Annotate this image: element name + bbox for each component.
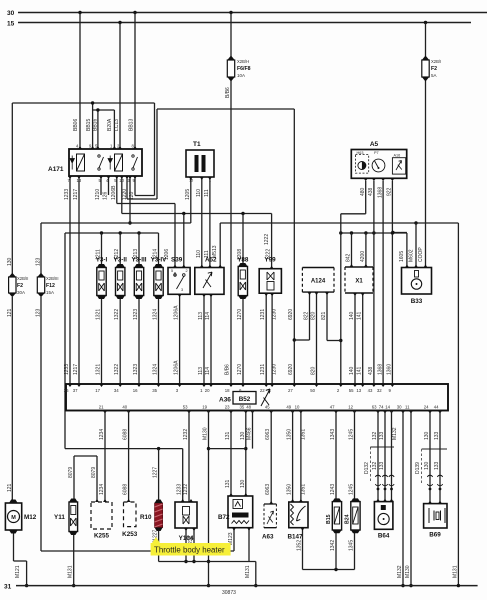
- svg-text:1270: 1270: [237, 364, 243, 375]
- svg-text:141: 141: [357, 366, 363, 375]
- svg-text:D139: D139: [415, 462, 421, 474]
- svg-text:Throttle body heater: Throttle body heater: [154, 546, 225, 555]
- wire 131 A36 to B72: [230, 411, 232, 497]
- wire 123 bottom line: [41, 550, 234, 552]
- svg-text:1210: 1210: [95, 189, 101, 200]
- svg-text:COOP: COOP: [418, 247, 424, 262]
- svg-text:1368: 1368: [377, 364, 383, 375]
- svg-text:110: 110: [196, 250, 202, 258]
- svg-text:BB06: BB06: [73, 119, 79, 131]
- wire S39 right pin: [183, 214, 185, 268]
- wire 123 to fuse F12: [40, 223, 42, 275]
- svg-text:B69: B69: [429, 532, 441, 539]
- wire 6063 A36 to A63: [270, 411, 272, 505]
- svg-text:37: 37: [73, 388, 78, 393]
- svg-text:F2: F2: [431, 66, 437, 72]
- wire 1213 to Y3-III: [138, 233, 140, 268]
- svg-text:1270: 1270: [237, 309, 243, 320]
- svg-text:1352: 1352: [297, 540, 303, 551]
- wire M130 A36 to ground rail: [208, 411, 210, 586]
- svg-text:6920: 6920: [288, 309, 294, 320]
- svg-text:20: 20: [205, 388, 210, 393]
- svg-text:74: 74: [379, 405, 384, 410]
- relay 1 switch: [98, 155, 100, 157]
- injector Y3-IV: [154, 264, 163, 299]
- svg-text:19: 19: [202, 405, 207, 410]
- svg-text:1351: 1351: [300, 429, 306, 440]
- svg-text:6920: 6920: [288, 364, 294, 375]
- svg-text:114: 114: [205, 312, 211, 320]
- svg-text:M131: M131: [245, 565, 251, 578]
- wire 8079 to K255: [96, 456, 98, 502]
- ignition coil T1: [186, 150, 214, 177]
- sensor B69 knock: [424, 504, 447, 528]
- wire LC13 rail15 to A171 pin2: [119, 23, 121, 150]
- valve Y11: [69, 499, 78, 536]
- wire 130 A36 to B72: [245, 411, 247, 497]
- wire heater feed line: [65, 448, 183, 450]
- wire 141 X1 to A36 pin13: [362, 293, 364, 384]
- wire supply down to R10 line: [64, 233, 66, 449]
- wire 1232 A36 to Y104: [188, 411, 190, 503]
- injector Y3-II: [116, 264, 125, 299]
- wire 130 to fuse F2 left: [11, 103, 13, 275]
- svg-text:M130: M130: [203, 427, 209, 440]
- ECU A36: [66, 384, 448, 411]
- svg-text:49: 49: [286, 405, 291, 410]
- injector Y3-I: [97, 264, 106, 299]
- wire M8079 Y11 to rail: [73, 535, 75, 586]
- wire 1245 A36 to B24: [354, 411, 356, 502]
- svg-text:M131: M131: [452, 565, 458, 578]
- svg-text:B24: B24: [345, 514, 351, 524]
- relay 2 coil: [115, 154, 123, 171]
- svg-text:30: 30: [7, 10, 15, 17]
- svg-text:Y88: Y88: [237, 257, 249, 264]
- wire 821 A124: [326, 292, 328, 340]
- relay 2 switch: [132, 155, 134, 157]
- svg-text:1231: 1231: [260, 309, 266, 320]
- wire 1323 Y3-III to A36 pin16: [138, 299, 140, 384]
- fuse F2 5A: [422, 56, 429, 82]
- svg-text:Y3-IV: Y3-IV: [151, 257, 168, 264]
- svg-text:1206A: 1206A: [174, 305, 180, 320]
- svg-text:17: 17: [95, 388, 100, 393]
- svg-text:X2B/II: X2B/II: [17, 276, 28, 281]
- svg-text:A: A: [268, 388, 271, 393]
- wire 1206B A171 to S39: [116, 176, 118, 204]
- svg-text:B33: B33: [411, 298, 423, 305]
- sensor B24: [351, 498, 360, 533]
- svg-text:B15: B15: [326, 514, 332, 524]
- svg-text:6063: 6063: [265, 484, 271, 495]
- svg-text:F6/F8: F6/F8: [237, 66, 251, 72]
- wire 1205 T1 pin to F12 feed line: [190, 177, 192, 223]
- svg-text:M131: M131: [68, 565, 74, 578]
- svg-text:141: 141: [357, 311, 363, 320]
- svg-text:1351: 1351: [300, 484, 306, 495]
- wire B72 right down: [248, 528, 250, 562]
- svg-text:6088: 6088: [123, 429, 129, 440]
- relay box A171: [69, 149, 142, 176]
- svg-text:1360: 1360: [387, 364, 393, 375]
- svg-text:D132: D132: [364, 462, 370, 474]
- svg-text:15: 15: [7, 21, 15, 28]
- svg-text:1230: 1230: [272, 364, 278, 375]
- wire 1214 to Y3-IV: [158, 233, 160, 268]
- svg-text:114: 114: [205, 367, 211, 375]
- svg-text:113: 113: [198, 367, 204, 375]
- svg-text:30: 30: [397, 405, 402, 410]
- svg-text:12: 12: [348, 405, 353, 410]
- wire M1232 Y104 down: [193, 528, 195, 562]
- svg-text:1343: 1343: [330, 429, 336, 440]
- wire to A52 right pin: [219, 223, 221, 268]
- wire 8079 bridge: [74, 455, 97, 457]
- junction rail30/BB06: [78, 11, 81, 14]
- svg-text:6088: 6088: [123, 484, 129, 495]
- wire 480 jog: [341, 213, 366, 215]
- svg-text:133: 133: [379, 431, 385, 440]
- svg-text:BB15: BB15: [86, 119, 92, 131]
- svg-text:M: M: [11, 515, 16, 521]
- svg-text:X2B/H: X2B/H: [237, 59, 249, 64]
- svg-text:43: 43: [368, 388, 373, 393]
- svg-text:A124: A124: [311, 279, 326, 285]
- svg-text:1206B: 1206B: [111, 185, 117, 200]
- svg-text:1233: 1233: [64, 189, 70, 200]
- svg-text:1324: 1324: [153, 364, 159, 375]
- svg-text:B20A: B20A: [107, 118, 113, 131]
- svg-text:30A: 30A: [17, 290, 25, 295]
- wire M121 to rail: [26, 561, 28, 586]
- svg-text:B52: B52: [239, 396, 251, 403]
- svg-text:K255: K255: [94, 533, 110, 540]
- svg-text:14: 14: [385, 405, 390, 410]
- svg-text:1322: 1322: [114, 364, 120, 375]
- svg-text:133: 133: [434, 461, 440, 470]
- ECU sub B52: [233, 392, 256, 405]
- wire 1226 A171 to F12 line: [129, 176, 131, 223]
- svg-text:27: 27: [288, 388, 293, 393]
- svg-text:133: 133: [434, 431, 440, 440]
- svg-text:50: 50: [310, 388, 315, 393]
- svg-text:40: 40: [122, 405, 127, 410]
- svg-text:55: 55: [349, 388, 354, 393]
- wire 922 A5 to A36 pin9: [391, 181, 393, 384]
- svg-text:140: 140: [349, 366, 355, 375]
- svg-text:1231: 1231: [260, 364, 266, 375]
- svg-text:4200: 4200: [360, 251, 366, 262]
- wire 1345 B24 down: [354, 530, 356, 570]
- svg-text:48: 48: [246, 405, 251, 410]
- switch S39: [168, 268, 190, 295]
- wire 6088 A36 to K253: [128, 411, 130, 503]
- junction rail15/fuse F2: [424, 21, 427, 24]
- wire 1233 A171 to A36 pin36: [69, 176, 71, 384]
- relay K255: [91, 502, 112, 529]
- wire loop to x157: [127, 198, 157, 200]
- svg-text:30873: 30873: [222, 590, 236, 596]
- svg-text:B/B6: B/B6: [225, 87, 231, 98]
- screened cable B69: [422, 449, 447, 483]
- svg-text:1323: 1323: [133, 364, 139, 375]
- svg-text:130: 130: [240, 479, 246, 488]
- injector Y3-III: [134, 264, 143, 299]
- junction rail15/BB16: [118, 21, 121, 24]
- svg-text:1350: 1350: [287, 484, 293, 495]
- wire 1210 stub: [100, 176, 102, 195]
- svg-text:1234: 1234: [99, 484, 105, 495]
- ECU bottom pin numbers: [103, 411, 107, 414]
- svg-text:130: 130: [424, 431, 430, 440]
- svg-text:1234: 1234: [99, 429, 105, 440]
- wire 1324 Y3-IV to A36 pin35: [158, 299, 160, 384]
- wire 1220 A171 to Y88/Y99: [121, 176, 123, 214]
- svg-text:M130: M130: [405, 565, 411, 578]
- svg-text:130: 130: [240, 431, 246, 440]
- svg-text:22: 22: [260, 388, 265, 393]
- svg-text:Y3-I: Y3-I: [96, 257, 108, 264]
- wire 1220 Y88 to A36 pin6: [242, 299, 244, 384]
- svg-text:X2B/I: X2B/I: [431, 59, 441, 64]
- svg-text:1222: 1222: [264, 234, 270, 245]
- svg-text:47: 47: [330, 405, 335, 410]
- wire M123 B72 down: [233, 528, 235, 551]
- valve Y104: [175, 502, 197, 528]
- svg-text:63: 63: [372, 405, 377, 410]
- svg-text:1217: 1217: [73, 364, 79, 375]
- wire 438 A5 to A36 pin43: [373, 181, 375, 384]
- svg-text:R10: R10: [140, 514, 152, 521]
- svg-text:820: 820: [311, 366, 317, 375]
- sensor B64 hall: [374, 502, 393, 530]
- wire engine speed signal line: [341, 232, 407, 234]
- wire M602 to B33: [415, 223, 417, 268]
- svg-text:BB13: BB13: [129, 119, 135, 131]
- svg-text:8079: 8079: [68, 467, 74, 478]
- svg-text:1232: 1232: [183, 484, 189, 495]
- svg-text:3: 3: [181, 288, 183, 292]
- relay K253: [124, 502, 137, 527]
- wire BB15: [92, 103, 94, 149]
- svg-text:A36: A36: [219, 397, 231, 404]
- svg-text:A171: A171: [48, 166, 64, 173]
- svg-text:53: 53: [183, 405, 188, 410]
- wire 1605 jog: [393, 232, 407, 234]
- svg-text:822: 822: [304, 311, 310, 320]
- wire M131 to rail: [255, 562, 257, 586]
- svg-text:1230: 1230: [272, 309, 278, 320]
- svg-text:45: 45: [265, 405, 270, 410]
- svg-text:B147: B147: [287, 534, 303, 541]
- wire D139 A36 to B69: [439, 411, 441, 504]
- wire 130 horizontal: [12, 102, 154, 104]
- valve Y88: [238, 263, 247, 299]
- junction rail30/BB13: [133, 11, 136, 14]
- svg-text:34: 34: [114, 388, 119, 393]
- wire 111 T1 to A52: [209, 177, 211, 268]
- wire BB13 rail30 to A171 pin8: [134, 13, 136, 150]
- svg-text:35: 35: [152, 388, 157, 393]
- potentiometer B147: [289, 502, 308, 528]
- wire rail 15: [18, 22, 471, 24]
- wire 1368 A5 to A36 pin32: [382, 181, 384, 384]
- svg-text:Y3-II: Y3-II: [114, 257, 128, 264]
- svg-text:820: 820: [311, 311, 317, 320]
- wire 8079 to Y11: [73, 456, 75, 502]
- svg-text:36: 36: [64, 388, 69, 393]
- wire 1350 A36 to B147: [292, 411, 294, 503]
- wire 822 A124: [309, 292, 311, 340]
- wire B20A to A171 pin1: [113, 110, 115, 149]
- svg-text:11: 11: [405, 405, 410, 410]
- wire 1206B feed line to S39: [117, 203, 175, 205]
- svg-text:131: 131: [225, 431, 231, 440]
- wire 1342 B15 down: [335, 530, 337, 570]
- relay 1 diode: [70, 156, 74, 170]
- svg-text:B64: B64: [378, 533, 390, 540]
- wire 1217 A171 to A36 pin37: [78, 176, 80, 384]
- wire 1231 Y99 to A36 pin22: [265, 293, 267, 384]
- wire 114 A52 to A36 pin20: [210, 294, 212, 384]
- wire 1605 to B33: [406, 233, 408, 268]
- svg-text:1245: 1245: [349, 429, 355, 440]
- wire 1343 A36 to B15: [335, 411, 337, 502]
- fuse F2 30A left: [9, 273, 16, 298]
- relay 1 coil: [77, 154, 85, 171]
- svg-text:S39: S39: [171, 257, 183, 264]
- wire 1227 to R10: [158, 449, 160, 501]
- module A52: [195, 268, 224, 295]
- svg-text:B/B6: B/B6: [225, 364, 231, 375]
- wire 1212 to Y3-II: [119, 233, 121, 268]
- wire BB16 stub pin5: [97, 110, 99, 149]
- wire loop right of A171: [154, 103, 156, 196]
- wire B/B6 fuse F6 feed: [230, 13, 232, 385]
- svg-text:M132: M132: [397, 565, 403, 578]
- svg-text:M466: M466: [247, 427, 253, 440]
- wire 110 T1 to A52: [201, 177, 203, 268]
- wire sensor ground line: [303, 569, 355, 571]
- wire M466 stub: [252, 411, 254, 449]
- svg-text:A63: A63: [262, 534, 274, 541]
- svg-text:21: 21: [99, 405, 104, 410]
- wire M130 A36 to ground: [410, 411, 412, 586]
- svg-text:123: 123: [36, 257, 42, 266]
- wire 140 X1 to A36 pin55: [354, 293, 356, 384]
- svg-text:1321: 1321: [96, 309, 102, 320]
- svg-text:M12: M12: [24, 514, 37, 521]
- resistor R10 throttle body heater: [155, 500, 163, 532]
- svg-text:821: 821: [321, 311, 327, 320]
- wire A171 pin9 down: [134, 176, 136, 196]
- wire 130 A36 to B69: [429, 411, 431, 504]
- svg-text:5A: 5A: [431, 73, 437, 78]
- svg-text:Y11: Y11: [54, 514, 65, 521]
- svg-text:110: 110: [196, 189, 202, 197]
- wire 1321 Y3-I to A36 pin17: [101, 299, 103, 384]
- wire 1220 feed line Y88 Y99: [122, 213, 272, 215]
- svg-text:A52: A52: [205, 257, 217, 264]
- svg-text:M121: M121: [15, 565, 21, 578]
- wire BB06 rail30 to A171 pin4: [79, 13, 81, 150]
- wire 1206 distribution line right: [220, 222, 458, 224]
- svg-text:10: 10: [295, 405, 300, 410]
- wire M132 A36 to ground: [402, 411, 404, 586]
- svg-text:113: 113: [198, 312, 204, 320]
- svg-text:8079: 8079: [91, 467, 97, 478]
- svg-text:130: 130: [424, 461, 430, 470]
- wire 123 fuse F12 down: [40, 297, 42, 551]
- connector A63: [264, 504, 276, 528]
- highlight throttle body heater: [151, 537, 231, 556]
- svg-text:LC13: LC13: [114, 119, 120, 131]
- svg-text:1605: 1605: [399, 251, 405, 262]
- svg-text:A5: A5: [370, 141, 379, 148]
- wire 1208 to Y88: [242, 214, 244, 267]
- svg-text:111: 111: [204, 189, 210, 197]
- wire 820 A124 to A36 pin50: [316, 292, 318, 384]
- wire fuse F2 feed to B33: [425, 23, 427, 268]
- svg-text:1232: 1232: [183, 429, 189, 440]
- svg-text:1245: 1245: [349, 484, 355, 495]
- wire M1227 bottom line: [159, 561, 256, 563]
- svg-text:1205: 1205: [185, 189, 191, 200]
- svg-text:F2: F2: [17, 283, 23, 289]
- wire 480/4200 to A36 pin2: [340, 214, 342, 384]
- svg-text:1322: 1322: [114, 309, 120, 320]
- svg-text:126: 126: [103, 191, 109, 200]
- svg-text:132: 132: [372, 431, 378, 440]
- svg-text:1206A: 1206A: [174, 360, 180, 375]
- svg-text:M602: M602: [409, 249, 415, 262]
- screened cable B64: [370, 447, 394, 483]
- warning lamp H63: [355, 155, 368, 174]
- wire M130 link: [209, 448, 246, 450]
- wire S39 left pin riser: [174, 204, 176, 268]
- svg-text:T1: T1: [193, 141, 201, 148]
- svg-text:23: 23: [225, 405, 230, 410]
- module A124: [302, 268, 334, 293]
- svg-text:1323: 1323: [133, 309, 139, 320]
- wire 1230 Y99 to A36 pinA: [271, 293, 273, 384]
- fuse F12 15A: [37, 273, 44, 298]
- svg-text:24: 24: [424, 405, 429, 410]
- valve Y99: [259, 269, 281, 294]
- svg-text:X2B/III: X2B/III: [46, 276, 59, 281]
- wire 1351 A36 to B147: [300, 411, 302, 503]
- fuse F6/F8 10A: [227, 56, 234, 82]
- wire right side to ground rail: [457, 223, 459, 586]
- svg-text:18: 18: [225, 388, 230, 393]
- wire 1206A S39 to A36 pin3: [179, 294, 181, 384]
- connector X1: [345, 267, 373, 293]
- svg-text:F12: F12: [46, 283, 55, 289]
- svg-text:5: 5: [171, 269, 173, 273]
- sensor B72: [228, 496, 253, 528]
- svg-text:44: 44: [434, 405, 439, 410]
- wire 1233 to Y104: [182, 449, 184, 502]
- wire 132 A36 to B64: [384, 411, 386, 502]
- wire riser x157: [156, 109, 158, 199]
- junction rail30/fuse F6: [229, 11, 232, 14]
- instrument cluster A5: [351, 150, 406, 179]
- wire M1233 Y104 down: [185, 528, 187, 562]
- wire 920 down to A36 pin27: [293, 109, 295, 384]
- wire 4200 to X1: [365, 233, 367, 267]
- svg-text:130: 130: [7, 257, 13, 266]
